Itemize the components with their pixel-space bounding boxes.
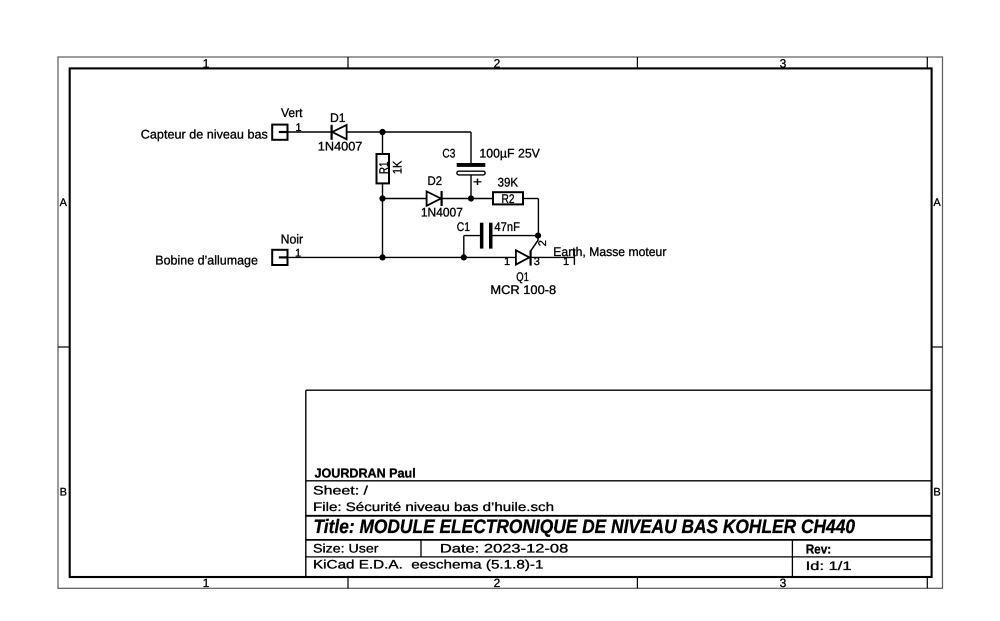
svg-text:Size: User: Size: User [313, 542, 379, 556]
svg-text:39K: 39K [498, 176, 519, 190]
svg-text:1: 1 [563, 256, 569, 268]
svg-text:2: 2 [494, 56, 501, 70]
svg-text:Sheet: /: Sheet: / [313, 484, 369, 498]
svg-text:Bobine d’allumage: Bobine d’allumage [155, 252, 258, 267]
svg-text:47nF: 47nF [494, 220, 520, 234]
svg-text:A: A [933, 197, 941, 209]
svg-text:100µF 25V: 100µF 25V [479, 147, 540, 161]
svg-text:JOURDRAN Paul: JOURDRAN Paul [315, 465, 416, 480]
svg-text:Rev:: Rev: [806, 542, 832, 557]
svg-text:3: 3 [534, 256, 540, 268]
svg-text:1: 1 [296, 122, 302, 134]
svg-text:KiCad E.D.A. eeschema (5.1.8): KiCad E.D.A. eeschema (5.1.8)-1 [313, 558, 544, 572]
svg-text:File: Sécurité niveau bas d’hu: File: Sécurité niveau bas d’huile.sch [313, 500, 554, 514]
svg-text:1: 1 [203, 576, 210, 590]
svg-text:1N4007: 1N4007 [421, 206, 463, 220]
svg-text:D2: D2 [428, 174, 443, 188]
svg-text:1N4007: 1N4007 [318, 140, 363, 154]
svg-text:1K: 1K [391, 160, 405, 174]
svg-text:Vert: Vert [281, 106, 303, 120]
svg-text:Noir: Noir [281, 232, 304, 247]
svg-text:Title: MODULE ELECTRONIQUE DE: Title: MODULE ELECTRONIQUE DE NIVEAU BAS… [314, 516, 856, 538]
svg-text:1: 1 [203, 56, 210, 70]
svg-text:3: 3 [780, 576, 787, 590]
svg-text:R2: R2 [502, 192, 515, 206]
svg-text:C1: C1 [457, 220, 470, 234]
svg-text:3: 3 [780, 56, 787, 70]
svg-text:Q1: Q1 [516, 270, 529, 284]
svg-text:B: B [60, 487, 67, 499]
svg-text:1: 1 [295, 247, 301, 259]
svg-text:Capteur de niveau bas: Capteur de niveau bas [141, 127, 268, 141]
svg-text:A: A [60, 197, 68, 209]
svg-text:D1: D1 [330, 111, 346, 125]
svg-text:B: B [933, 487, 940, 499]
svg-text:Date: 2023-12-08: Date: 2023-12-08 [440, 542, 569, 556]
svg-text:R1: R1 [377, 162, 391, 175]
svg-text:2: 2 [494, 576, 501, 590]
svg-text:MCR 100-8: MCR 100-8 [490, 283, 556, 297]
svg-text:+: + [473, 175, 482, 189]
svg-text:Id: 1/1: Id: 1/1 [806, 559, 852, 573]
svg-text:C3: C3 [442, 147, 455, 161]
svg-text:Earth, Masse moteur: Earth, Masse moteur [553, 245, 666, 259]
svg-text:1: 1 [504, 256, 510, 268]
svg-text:2: 2 [537, 240, 549, 246]
